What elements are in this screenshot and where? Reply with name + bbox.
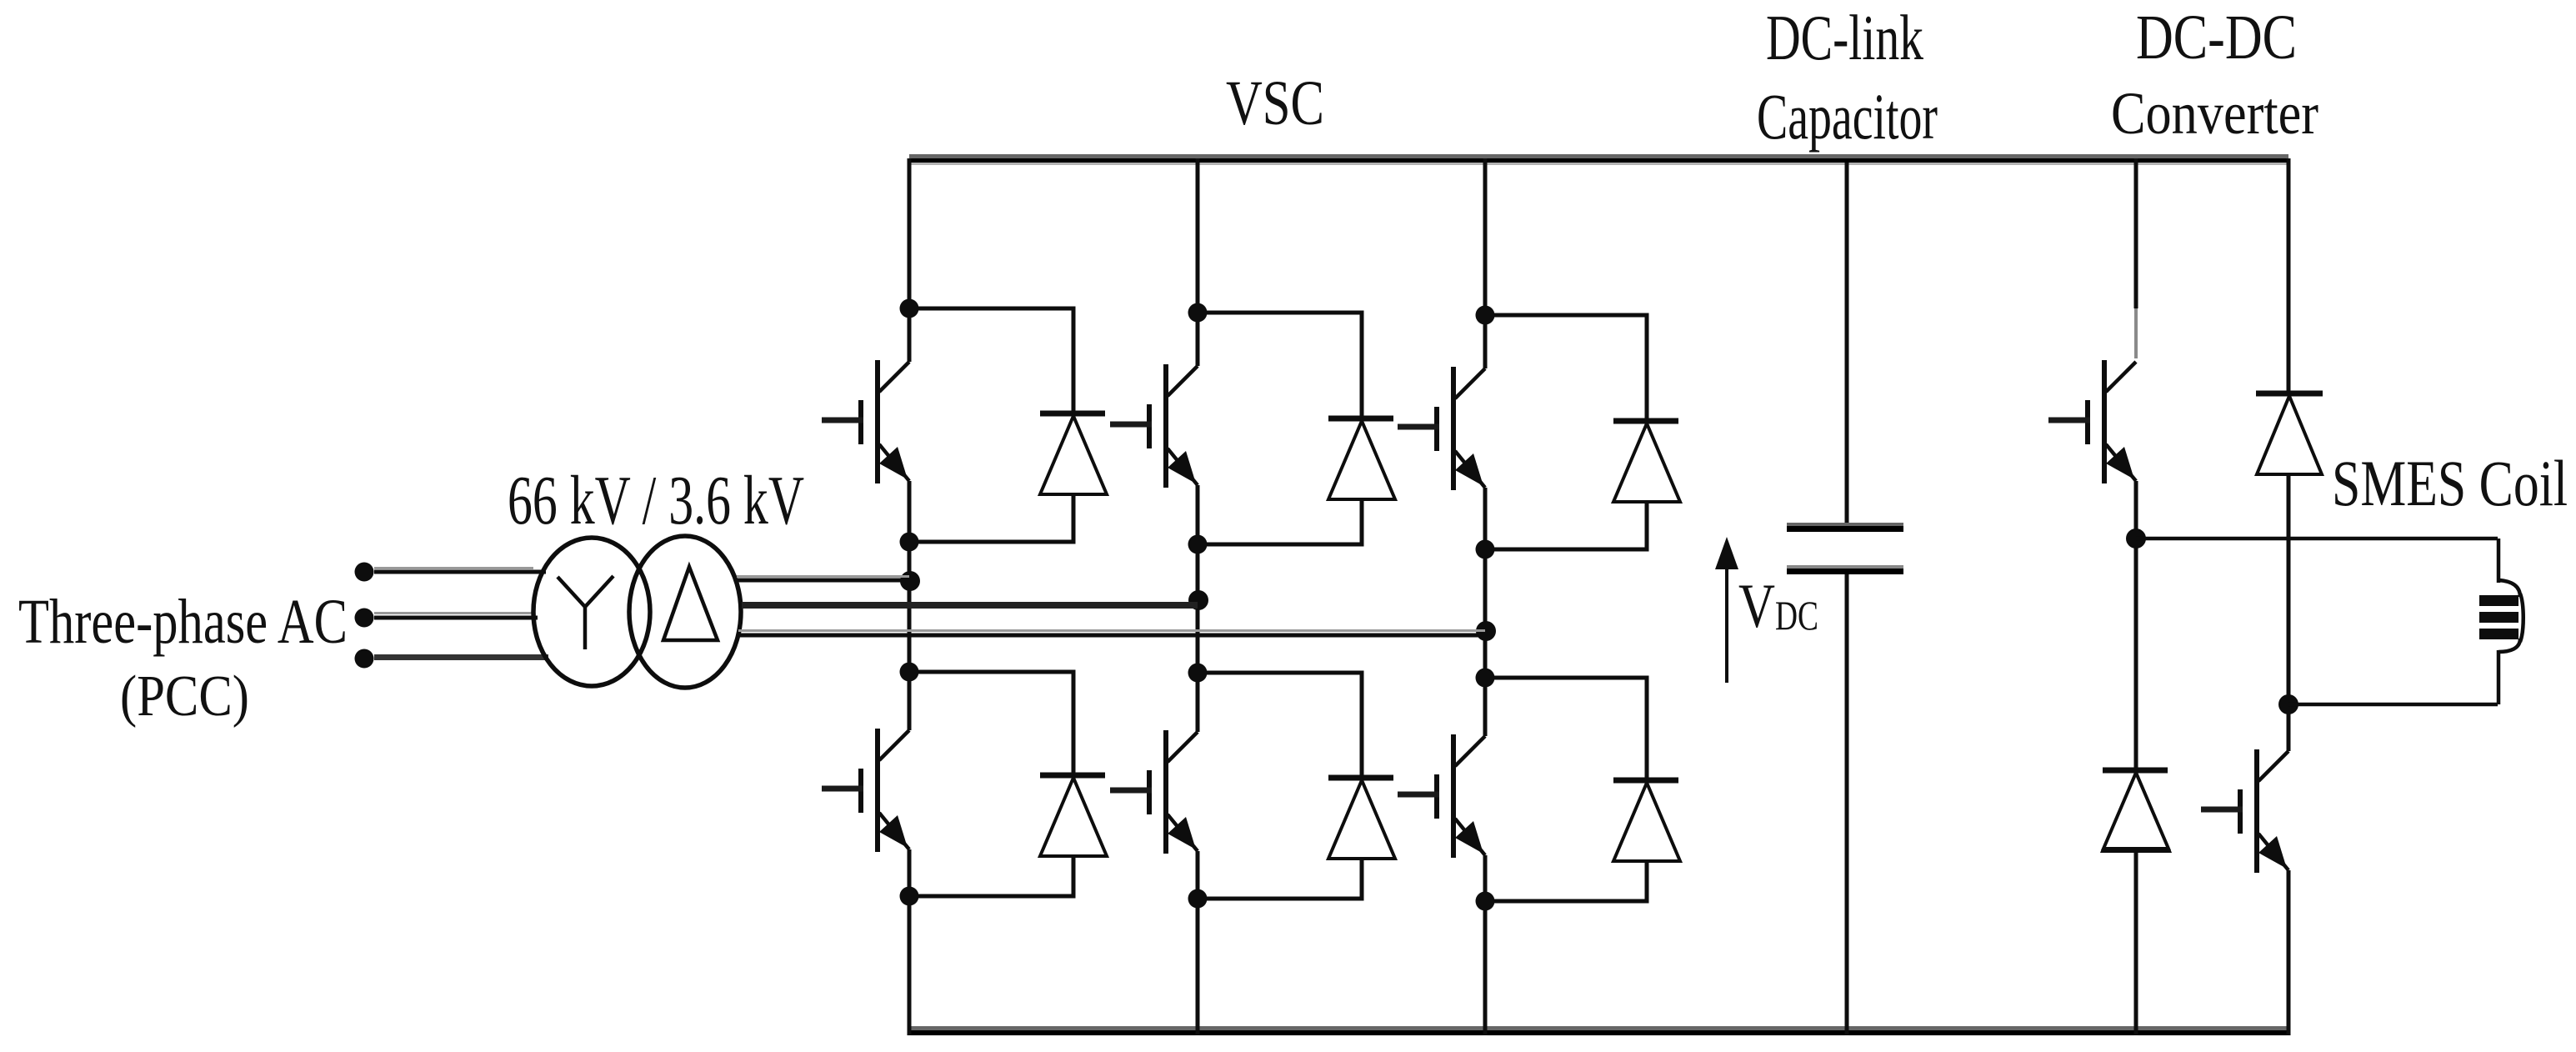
svg-text:66 kV / 3.6 kV: 66 kV / 3.6 kV [508,462,804,539]
svg-text:Capacitor: Capacitor [1757,80,1938,153]
svg-text:DC: DC [1775,592,1818,639]
svg-text:Converter: Converter [2111,80,2318,147]
svg-text:SMES Coil: SMES Coil [2332,447,2568,519]
svg-text:Three-phase AC: Three-phase AC [18,587,348,657]
svg-text:VSC: VSC [1226,68,1324,138]
svg-text:(PCC): (PCC) [120,664,249,729]
svg-text:DC-link: DC-link [1766,2,1923,73]
svg-text:V: V [1738,572,1775,641]
svg-text:DC-DC: DC-DC [2136,3,2297,73]
